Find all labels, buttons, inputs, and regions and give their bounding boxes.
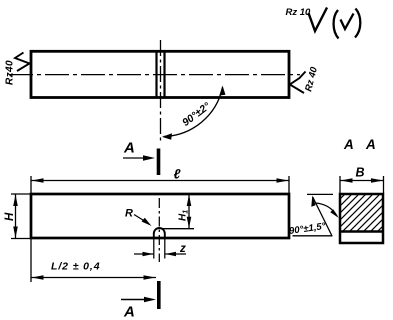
svg-text:ℓ: ℓ: [174, 167, 182, 182]
svg-text:z: z: [179, 243, 186, 255]
svg-text:L/2 ± 0,4: L/2 ± 0,4: [51, 261, 100, 273]
svg-text:A: A: [343, 137, 354, 152]
svg-text:R: R: [125, 208, 133, 220]
svg-text:A: A: [123, 304, 135, 320]
svg-text:Rz 10: Rz 10: [286, 7, 312, 18]
svg-text:A: A: [123, 140, 135, 157]
svg-text:B: B: [356, 166, 365, 180]
svg-text:A: A: [365, 137, 376, 152]
svg-text:Rz40: Rz40: [5, 60, 16, 85]
svg-text:H: H: [4, 212, 16, 221]
